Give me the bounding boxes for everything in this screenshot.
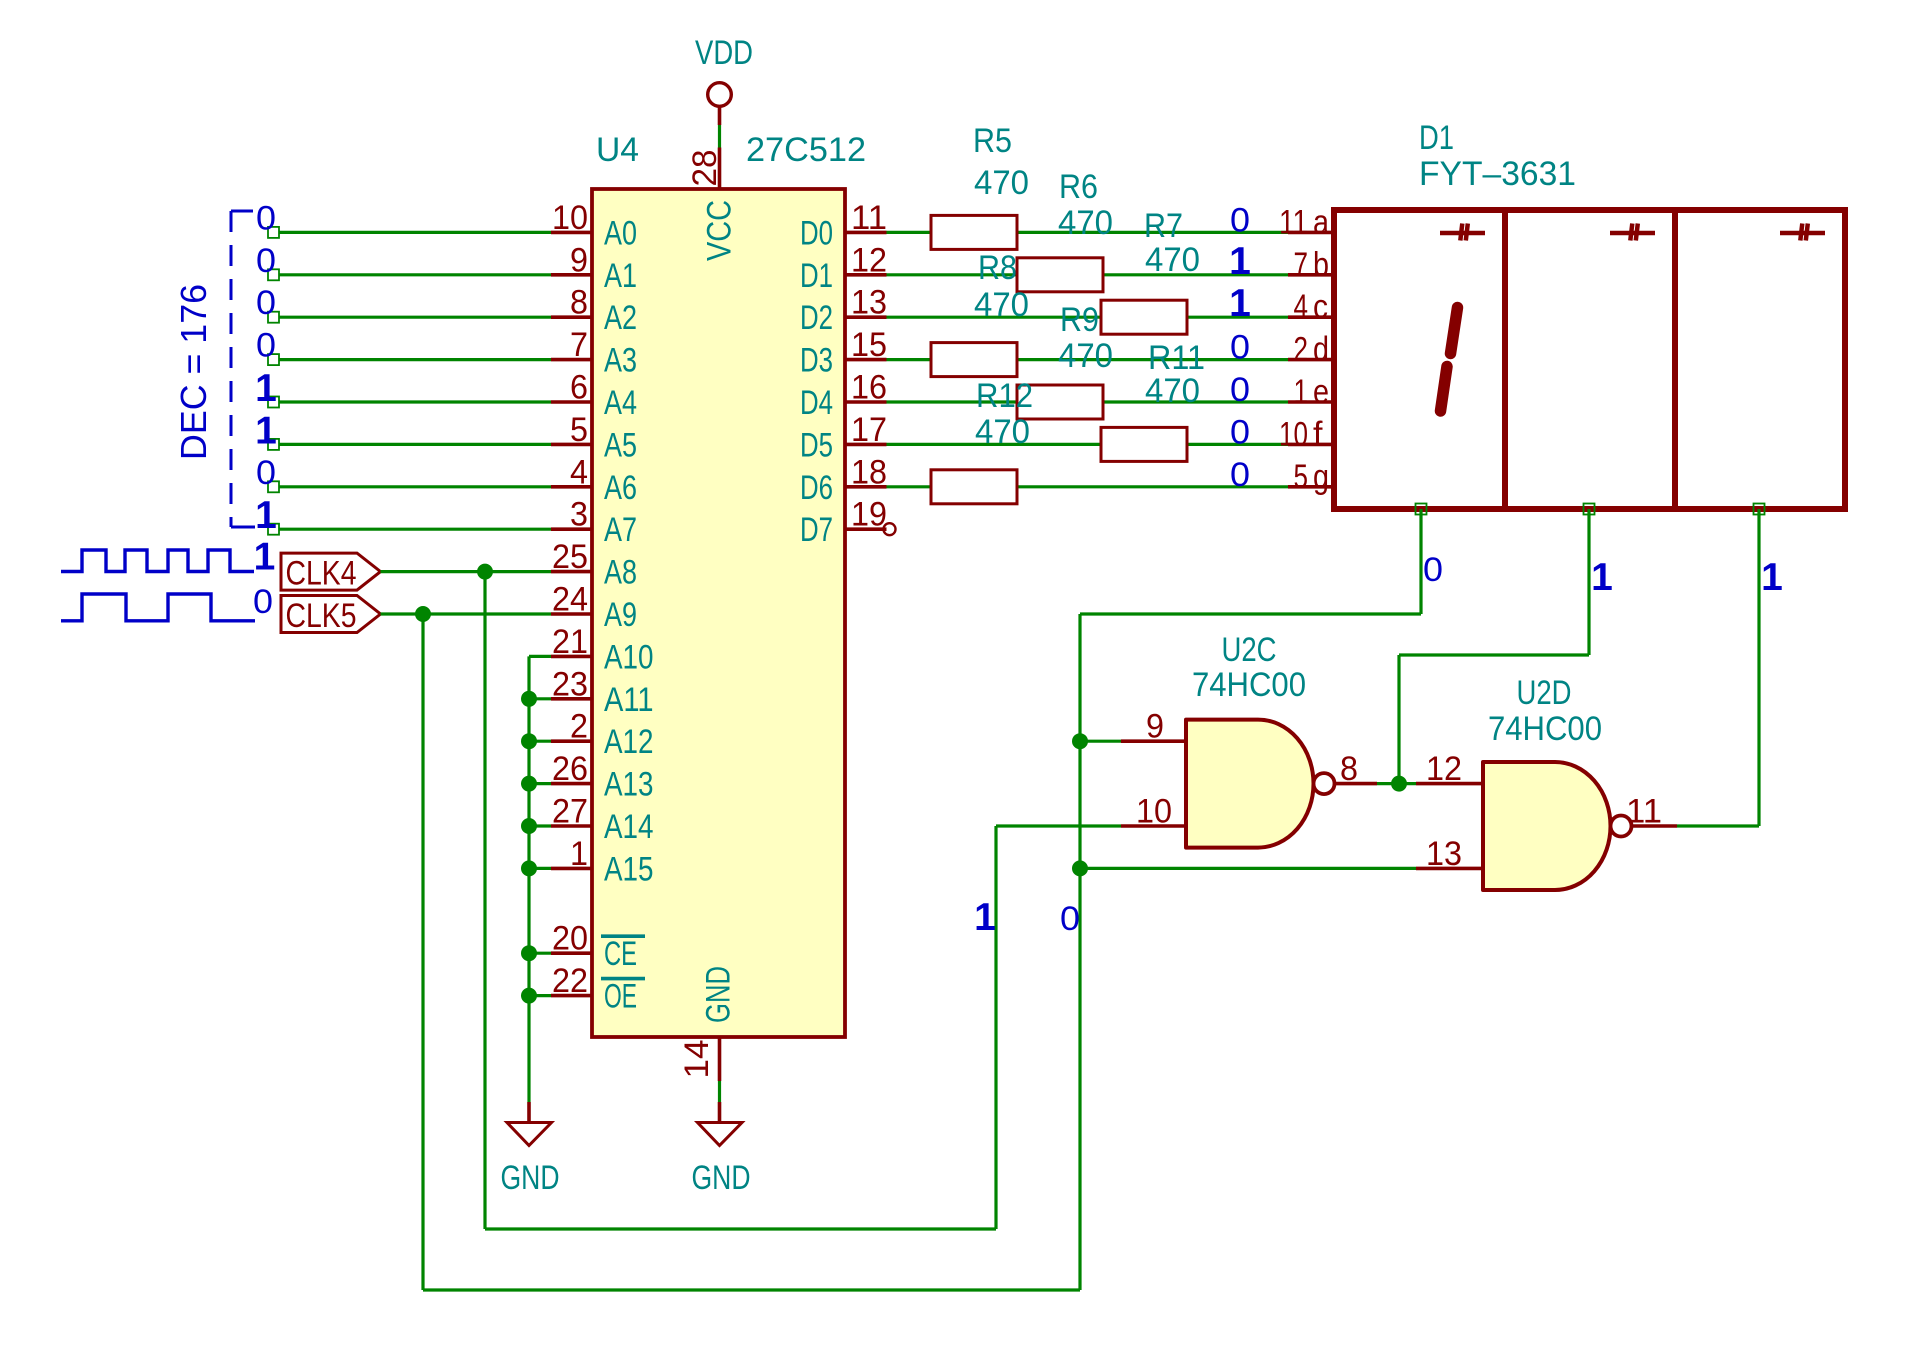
svg-text:15: 15 [851,326,887,364]
svg-text:D1: D1 [1419,119,1454,157]
svg-text:22: 22 [552,962,588,1000]
svg-text:A5: A5 [604,426,637,464]
svg-text:CLK4: CLK4 [286,555,357,593]
svg-text:c: c [1313,288,1328,326]
svg-text:21: 21 [552,623,588,661]
svg-text:0: 0 [1230,456,1250,494]
svg-text:A0: A0 [604,214,637,252]
svg-text:1: 1 [570,835,588,873]
svg-text:1: 1 [255,409,277,452]
svg-text:VCC: VCC [701,200,739,261]
svg-text:D0: D0 [800,214,833,252]
svg-text:1: 1 [1229,282,1251,325]
svg-text:470: 470 [974,286,1029,324]
svg-text:A11: A11 [604,681,654,719]
svg-text:GND: GND [692,1159,751,1197]
svg-text:0: 0 [1423,551,1443,589]
svg-text:13: 13 [1426,835,1462,873]
svg-text:11: 11 [1626,793,1662,831]
svg-text:9: 9 [1146,708,1164,746]
svg-text:A4: A4 [604,384,637,422]
svg-text:12: 12 [851,241,887,279]
svg-text:7: 7 [570,326,588,364]
svg-text:17: 17 [851,411,887,449]
svg-text:e: e [1313,373,1329,411]
svg-text:470: 470 [1145,241,1200,279]
svg-text:A15: A15 [604,850,654,888]
svg-text:U4: U4 [596,131,639,169]
svg-text:0: 0 [256,284,276,322]
svg-text:74HC00: 74HC00 [1192,666,1306,704]
svg-text:a: a [1313,203,1329,241]
svg-text:11: 11 [851,199,887,237]
svg-text:VDD: VDD [695,34,753,72]
svg-text:25: 25 [552,538,588,576]
svg-text:A12: A12 [604,723,654,761]
svg-text:0: 0 [1230,329,1250,367]
svg-text:2: 2 [1294,331,1309,369]
svg-text:A8: A8 [604,554,637,592]
svg-text:1: 1 [1591,556,1613,599]
svg-text:0: 0 [256,242,276,280]
svg-text:D7: D7 [800,511,833,549]
svg-text:R6: R6 [1059,168,1098,206]
svg-text:0: 0 [1230,201,1250,239]
svg-text:A14: A14 [604,808,654,846]
svg-text:b: b [1313,246,1329,284]
svg-text:D6: D6 [800,469,833,507]
svg-text:CLK5: CLK5 [286,597,357,635]
svg-text:0: 0 [256,199,276,237]
svg-text:A13: A13 [604,766,654,804]
svg-text:A6: A6 [604,469,637,507]
svg-text:FYT–3631: FYT–3631 [1419,155,1576,193]
svg-text:2: 2 [570,708,588,746]
svg-text:U2C: U2C [1222,631,1277,669]
svg-text:6: 6 [570,369,588,407]
svg-text:16: 16 [851,369,887,407]
svg-text:14: 14 [678,1040,716,1079]
svg-text:10: 10 [552,199,588,237]
svg-text:12: 12 [1426,750,1462,788]
svg-text:470: 470 [1145,372,1200,410]
svg-text:U2D: U2D [1517,674,1572,712]
svg-text:470: 470 [1058,204,1113,242]
svg-text:R5: R5 [973,122,1012,160]
svg-text:0: 0 [256,327,276,365]
svg-text:7: 7 [1294,246,1309,284]
svg-text:1: 1 [255,367,277,410]
svg-text:8: 8 [570,284,588,322]
svg-text:R8: R8 [978,249,1017,287]
svg-text:GND: GND [700,966,738,1023]
svg-text:d: d [1313,331,1329,369]
svg-text:A1: A1 [604,257,637,295]
svg-text:A3: A3 [604,342,637,380]
svg-text:D3: D3 [800,342,833,380]
svg-text:5: 5 [1294,458,1309,496]
svg-text:4: 4 [1294,288,1309,326]
svg-text:19: 19 [851,496,887,534]
svg-text:R12: R12 [976,377,1033,415]
svg-text:28: 28 [686,150,724,187]
svg-text:OE: OE [604,978,637,1016]
svg-text:20: 20 [552,920,588,958]
svg-text:A2: A2 [604,299,637,337]
svg-text:10: 10 [1279,415,1308,453]
svg-text:GND: GND [501,1159,560,1197]
svg-text:470: 470 [974,164,1029,202]
svg-text:f: f [1313,415,1323,453]
svg-text:0: 0 [256,454,276,492]
svg-text:0: 0 [253,583,273,621]
svg-text:A10: A10 [604,638,654,676]
svg-text:11: 11 [1279,203,1308,241]
svg-text:1: 1 [974,896,996,939]
svg-text:3: 3 [570,496,588,534]
svg-text:CE: CE [604,935,637,973]
svg-text:1: 1 [1294,373,1309,411]
svg-text:27C512: 27C512 [746,131,866,169]
svg-text:D4: D4 [800,384,833,422]
svg-text:DEC = 176: DEC = 176 [173,284,214,460]
svg-text:10: 10 [1136,793,1172,831]
svg-text:24: 24 [552,581,588,619]
svg-text:470: 470 [1058,337,1113,375]
svg-text:0: 0 [1230,371,1250,409]
svg-text:74HC00: 74HC00 [1488,710,1602,748]
svg-text:1: 1 [255,494,277,537]
svg-text:18: 18 [851,453,887,491]
svg-text:1: 1 [1761,556,1783,599]
svg-text:D5: D5 [800,426,833,464]
svg-text:9: 9 [570,241,588,279]
svg-text:0: 0 [1060,900,1080,938]
svg-text:4: 4 [570,453,588,491]
svg-text:0: 0 [1230,413,1250,451]
svg-text:23: 23 [552,665,588,703]
svg-text:D2: D2 [800,299,833,337]
svg-text:27: 27 [552,793,588,831]
svg-text:g: g [1313,458,1329,496]
svg-text:A9: A9 [604,596,637,634]
svg-text:A7: A7 [604,511,637,549]
svg-text:D1: D1 [800,257,833,295]
svg-text:R7: R7 [1144,207,1183,245]
svg-text:1: 1 [254,536,276,579]
svg-text:1: 1 [1229,240,1251,283]
svg-text:8: 8 [1340,750,1358,788]
svg-text:470: 470 [975,413,1030,451]
svg-text:R9: R9 [1060,301,1099,339]
svg-text:5: 5 [570,411,588,449]
svg-text:13: 13 [851,284,887,322]
svg-text:26: 26 [552,750,588,788]
